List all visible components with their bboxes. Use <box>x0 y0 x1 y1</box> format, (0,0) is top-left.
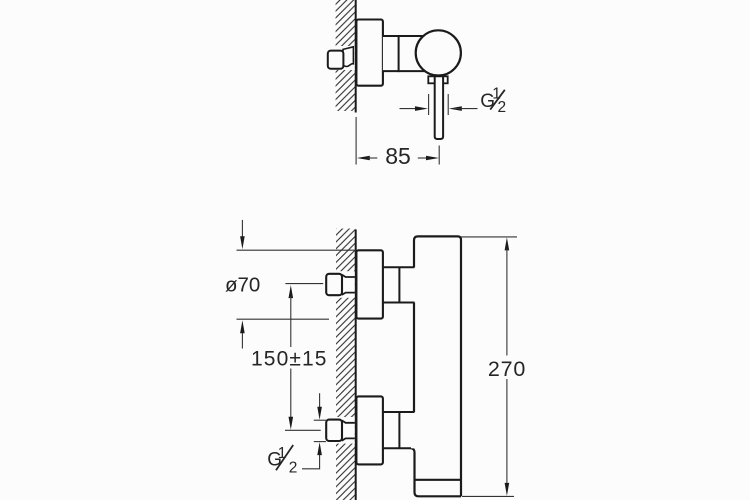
G1/2 lower arrow with leader <box>302 449 320 469</box>
bottom cap joint line <box>415 479 462 481</box>
inlet fitting (square, side view) <box>328 51 344 69</box>
wall (hatched section, top view) <box>336 0 356 111</box>
upper connection tube <box>383 267 415 302</box>
G1/2 extension lines (top drawing) <box>428 94 430 115</box>
escutcheon (wall flange) <box>356 20 383 86</box>
dimension 270 line and arrows <box>505 237 510 250</box>
knob circle <box>416 30 461 75</box>
svg-text:2: 2 <box>289 459 298 476</box>
wall face extension line <box>355 117 357 165</box>
body left edge between connections <box>413 303 415 413</box>
svg-text:2: 2 <box>498 99 507 116</box>
dimension 150±15 line and arrows <box>289 285 294 298</box>
upper inlet neck through wall <box>336 271 355 298</box>
dimension 150±15 extension lines (inlet centres) <box>285 283 323 285</box>
lever centre extension line <box>438 146 440 165</box>
lower tube joint line <box>398 412 400 448</box>
upper escutcheon <box>356 250 383 318</box>
upper inlet fitting G1/2 <box>326 274 342 295</box>
dimension ø70 arrows <box>241 220 243 243</box>
body lower-left edge and bottom <box>411 448 462 496</box>
svg-text:1: 1 <box>278 445 287 462</box>
svg-text:270: 270 <box>488 357 526 381</box>
upper tube joint line <box>398 267 400 302</box>
wall face line <box>355 0 357 113</box>
svg-text:85: 85 <box>385 143 411 169</box>
lower inlet fitting G1/2 <box>326 420 342 441</box>
svg-text:ø70: ø70 <box>225 274 260 297</box>
lever handle <box>435 76 443 139</box>
valve body tube <box>383 36 433 71</box>
svg-text:150±15: 150±15 <box>251 347 328 370</box>
G1/2 dimension arrows (top drawing) <box>400 108 425 110</box>
mixer body outline <box>414 236 461 496</box>
lower connection tube <box>383 412 415 448</box>
wall (hatched section, bottom view) <box>336 229 355 500</box>
lower escutcheon <box>356 396 383 464</box>
wall face line <box>355 230 357 500</box>
extension line, escutcheon top edge <box>237 249 357 251</box>
hatch interruption behind inlet fitting <box>335 46 354 70</box>
dimension 270 extension lines <box>461 236 517 238</box>
dimension G1/2 (lower inlet) extension lines <box>314 419 326 421</box>
tube joint line <box>398 35 400 72</box>
inlet flange (perspective piece behind square fitting) <box>343 47 353 67</box>
dimension 85 <box>357 156 370 161</box>
G1/2 upper arrow <box>319 393 321 413</box>
lever collar tabs <box>428 76 447 83</box>
lower inlet neck through wall <box>336 417 355 444</box>
extension line, escutcheon bottom edge <box>237 318 330 320</box>
